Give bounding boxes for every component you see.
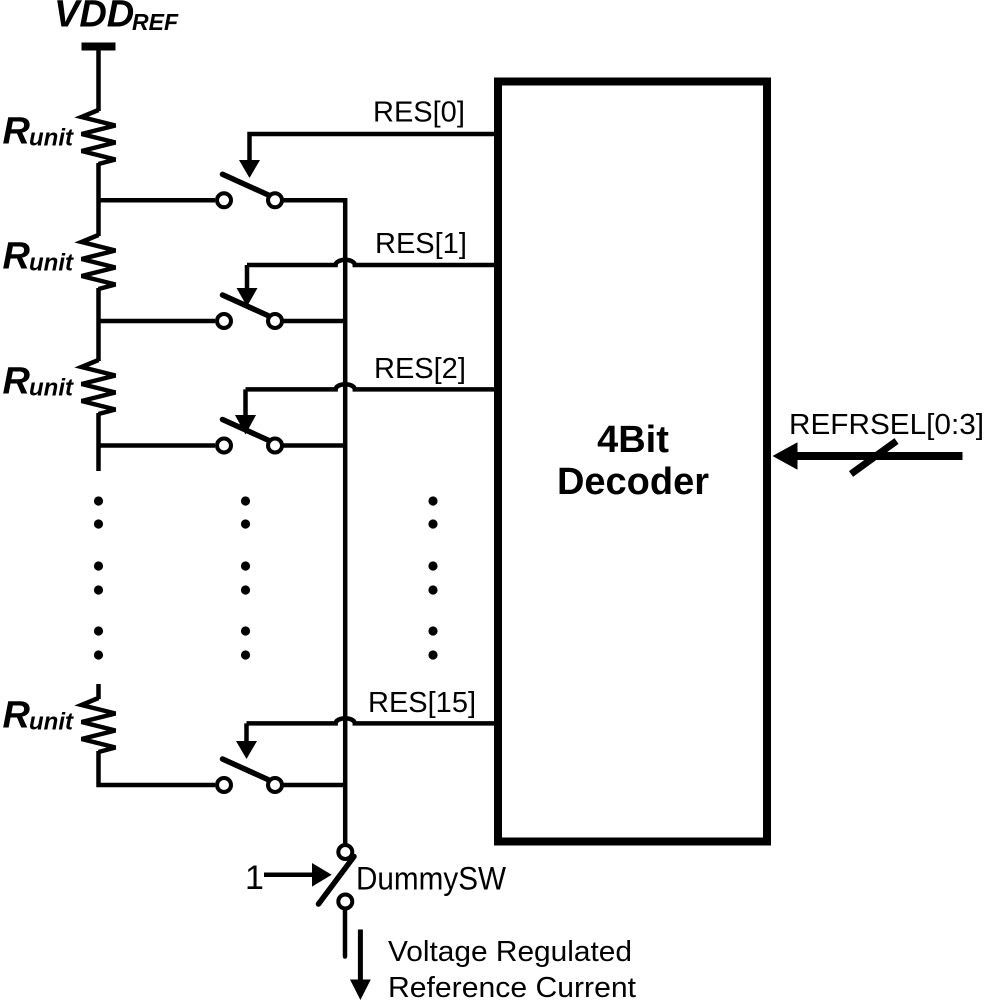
wire break to R4 <box>96 684 101 699</box>
label RES[15] <box>368 687 476 719</box>
wire RES[2] with hop over bus <box>246 384 495 417</box>
wire R2 to node 2 / R3 <box>96 288 101 361</box>
wire RES[1] with hop over bus <box>247 260 494 290</box>
label Voltage Regulated Reference Current <box>388 936 636 1000</box>
svg-text:Voltage Regulated: Voltage Regulated <box>388 936 632 968</box>
svg-text:REF: REF <box>132 9 179 35</box>
wire R3 down to break <box>96 413 101 471</box>
svg-text:Reference Current: Reference Current <box>388 972 636 1000</box>
ellipsis dots (switch column continues) <box>241 496 250 659</box>
svg-text:unit: unit <box>29 125 74 152</box>
resistor R3 <box>82 360 116 414</box>
label constant 1 <box>245 859 264 897</box>
wire RES[0] <box>250 134 495 162</box>
label Runit (R1) <box>3 111 74 153</box>
svg-text:R: R <box>3 695 31 737</box>
svg-text:RES[15]: RES[15] <box>368 687 476 719</box>
label Runit (R3) <box>3 361 74 403</box>
wire SW16 output to bus <box>284 783 348 788</box>
wire R4 to node 4 tap <box>99 751 216 785</box>
svg-text:RES[2]: RES[2] <box>374 353 466 385</box>
label REFRSEL[0:3] <box>789 409 984 441</box>
label 4Bit Decoder <box>557 419 709 503</box>
switch SW2 <box>217 295 282 328</box>
control arrowhead RES[15] <box>236 741 257 759</box>
node tap 3 wire <box>99 443 216 448</box>
net label VDDREF <box>54 0 179 36</box>
switch SW16 <box>217 759 282 792</box>
svg-text:DummySW: DummySW <box>356 861 507 897</box>
resistor R2 <box>82 235 116 289</box>
switch SW1 <box>217 174 282 207</box>
node tap 2 wire <box>99 319 216 324</box>
ellipsis dots (RES lines continue) <box>428 496 437 659</box>
svg-text:4Bit: 4Bit <box>597 419 669 461</box>
svg-text:unit: unit <box>29 250 74 277</box>
output current arrow <box>350 930 371 1000</box>
control arrowhead RES[0] <box>239 160 260 178</box>
ellipsis dots (resistor chain continues) <box>94 496 103 659</box>
switch DummySW <box>319 845 355 909</box>
power rail VDD_REF <box>82 43 116 51</box>
bus-width slash on REFRSEL <box>851 441 897 474</box>
output wire stub below DummySW <box>343 911 348 957</box>
svg-text:VDD: VDD <box>54 0 134 36</box>
svg-text:R: R <box>3 361 31 403</box>
wire SW1 output to bus <box>284 198 348 203</box>
svg-text:unit: unit <box>29 375 74 402</box>
label Runit (R2) <box>3 236 74 278</box>
switch SW3 <box>217 420 282 453</box>
node tap 1 wire <box>99 198 216 203</box>
control arrowhead RES[1] <box>237 288 258 307</box>
svg-text:RES[0]: RES[0] <box>373 97 465 129</box>
input arrow REFRSEL[0:3] <box>773 442 963 470</box>
svg-text:R: R <box>3 111 31 153</box>
label RES[2] <box>374 353 466 385</box>
label RES[1] <box>375 228 467 260</box>
wire R1 to node 1 / R2 <box>96 163 101 236</box>
label DummySW <box>356 861 507 897</box>
svg-text:R: R <box>3 236 31 278</box>
decoder block U1: 4Bit Decoder <box>498 82 767 842</box>
resistor R4 <box>82 698 116 752</box>
svg-text:REFRSEL[0:3]: REFRSEL[0:3] <box>789 409 984 441</box>
wire SW3 output to bus <box>284 443 348 448</box>
control arrow from 1 to DummySW <box>264 863 332 887</box>
bus wire (selected tap to DummySW) <box>343 198 348 843</box>
label Runit (R4) <box>3 695 74 737</box>
label RES[0] <box>373 97 465 129</box>
svg-text:unit: unit <box>29 709 74 736</box>
svg-text:RES[1]: RES[1] <box>375 228 467 260</box>
wire VDD to R1 <box>96 50 101 111</box>
wire SW2 output to bus <box>284 319 348 324</box>
resistor R1 <box>82 110 116 164</box>
svg-text:Decoder: Decoder <box>557 461 709 503</box>
svg-text:1: 1 <box>245 859 264 897</box>
control arrowhead RES[2] <box>235 415 256 435</box>
wire RES[15] with hop over bus <box>247 718 495 743</box>
